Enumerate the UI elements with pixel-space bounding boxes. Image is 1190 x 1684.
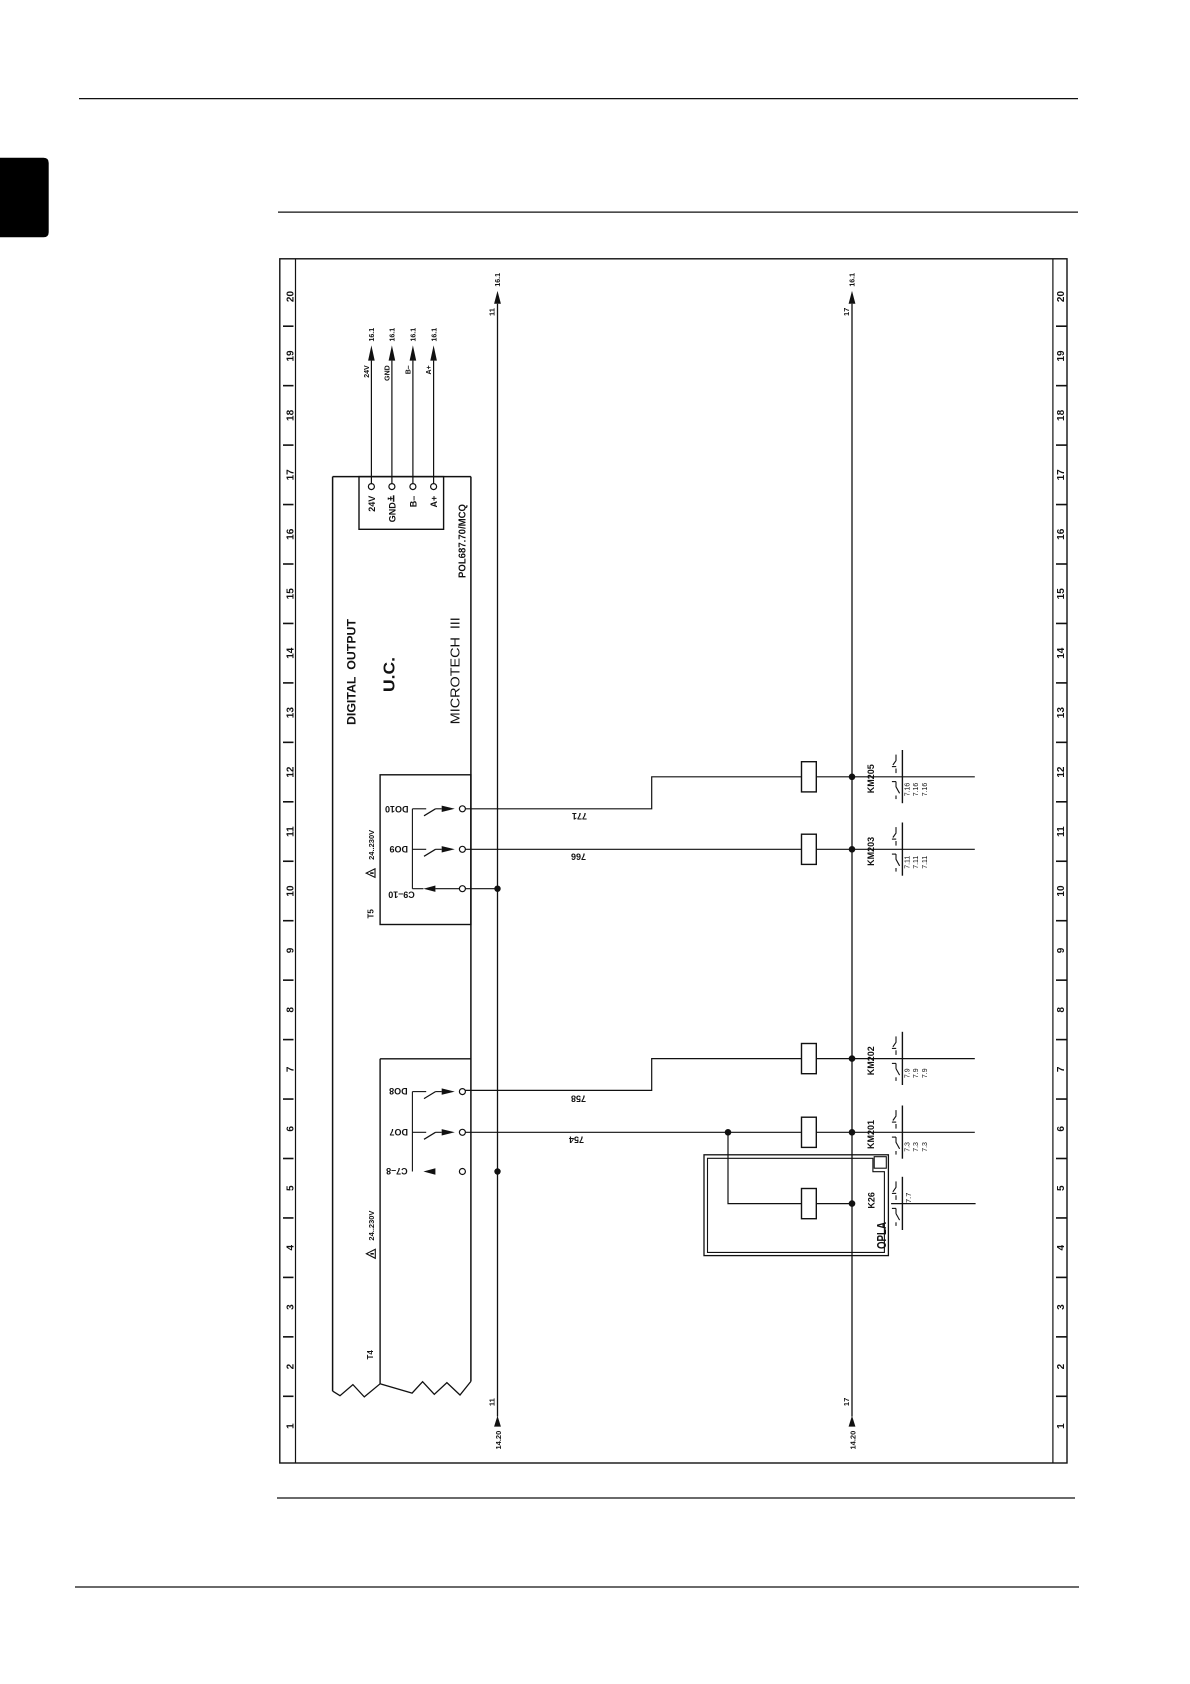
svg-text:771: 771 xyxy=(572,811,587,821)
svg-text:24V: 24V xyxy=(364,365,371,378)
svg-text:16: 16 xyxy=(285,528,296,540)
node: T5 terminal box xyxy=(380,775,471,925)
svg-text:7.9: 7.9 xyxy=(905,1068,912,1078)
svg-text:7.9: 7.9 xyxy=(913,1068,920,1078)
wire: net B- to sheet 16.1 xyxy=(412,361,414,484)
svg-text:13: 13 xyxy=(285,707,296,719)
svg-text:T5: T5 xyxy=(367,909,376,919)
svg-text:C7–8: C7–8 xyxy=(386,1166,408,1176)
wire: net 17 vertical bus xyxy=(851,304,853,1417)
svg-text:A+: A+ xyxy=(429,496,439,508)
node: warning 24..230V (T5) xyxy=(366,830,376,878)
node: junction KM203/net17 xyxy=(849,846,856,853)
wire: KM201 coil to bus 17 xyxy=(816,1131,975,1133)
svg-text:U.C.: U.C. xyxy=(382,657,399,692)
svg-text:DO8: DO8 xyxy=(389,1086,408,1096)
svg-text:4: 4 xyxy=(1056,1244,1067,1250)
wire: T5 output bracket xyxy=(411,809,413,889)
switch DO10: output contact xyxy=(412,806,465,816)
node: T4 terminal box xyxy=(380,1059,471,1384)
svg-text:11: 11 xyxy=(488,1398,497,1406)
svg-text:7.11: 7.11 xyxy=(922,856,929,869)
svg-text:16: 16 xyxy=(1056,528,1067,540)
svg-text:7.3: 7.3 xyxy=(905,1142,912,1152)
svg-text:K26: K26 xyxy=(867,1192,877,1209)
svg-text:7.9: 7.9 xyxy=(922,1068,929,1078)
switch: contact cross-reference xyxy=(892,1177,903,1230)
svg-text:16.1: 16.1 xyxy=(369,328,376,342)
relay coil K26 xyxy=(802,1189,817,1219)
svg-text:24V: 24V xyxy=(367,496,377,512)
svg-text:7.3: 7.3 xyxy=(913,1142,920,1152)
node: pin 1 (24V) xyxy=(368,484,374,490)
svg-text:T4: T4 xyxy=(366,1350,375,1360)
svg-text:5: 5 xyxy=(285,1185,296,1191)
svg-text:17: 17 xyxy=(842,1398,851,1406)
svg-text:7.16: 7.16 xyxy=(922,783,929,797)
svg-text:14: 14 xyxy=(1056,647,1067,659)
switch: contact cross-reference xyxy=(892,750,903,803)
svg-text:KM205: KM205 xyxy=(866,764,876,793)
wire 754: DO7 to KM201 xyxy=(465,1131,801,1133)
relay coil KM205 xyxy=(802,762,817,792)
wire: T4 output bracket xyxy=(411,1092,413,1172)
node: junction K26 tap xyxy=(725,1129,732,1136)
node: pin 3 (B-) xyxy=(410,484,416,490)
svg-text:8: 8 xyxy=(285,1007,296,1013)
svg-text:GND: GND xyxy=(387,502,397,523)
svg-text:2: 2 xyxy=(285,1363,296,1369)
svg-text:DO9: DO9 xyxy=(389,844,408,854)
wire: K26 coil to bus 17 xyxy=(816,1203,852,1205)
svg-text:12: 12 xyxy=(1056,766,1067,778)
relay coil KM201 xyxy=(802,1117,817,1147)
svg-text:18: 18 xyxy=(1056,409,1067,421)
svg-text:7.3: 7.3 xyxy=(922,1142,929,1152)
switch: contact cross-reference xyxy=(892,823,903,876)
svg-text:3: 3 xyxy=(1056,1304,1067,1310)
switch C7&#8211;8: common terminal xyxy=(423,1168,500,1174)
svg-text:15: 15 xyxy=(285,588,296,600)
svg-text:KM201: KM201 xyxy=(866,1120,876,1149)
svg-text:16.1: 16.1 xyxy=(431,328,438,342)
svg-text:15: 15 xyxy=(1056,588,1067,600)
svg-text:KM203: KM203 xyxy=(866,837,876,866)
svg-text:766: 766 xyxy=(571,851,586,861)
svg-text:19: 19 xyxy=(1056,350,1067,362)
svg-text:5: 5 xyxy=(1056,1185,1067,1191)
wire: torn bottom edge zigzag xyxy=(333,1381,471,1397)
svg-text:20: 20 xyxy=(1056,291,1067,303)
svg-text:1: 1 xyxy=(285,1423,296,1429)
svg-text:12: 12 xyxy=(285,766,296,778)
svg-text:16.1: 16.1 xyxy=(411,328,418,342)
svg-text:C9–10: C9–10 xyxy=(388,890,415,900)
svg-text:A+: A+ xyxy=(426,365,433,374)
svg-text:4: 4 xyxy=(285,1244,296,1250)
switch DO8: output contact xyxy=(412,1088,465,1098)
svg-text:3: 3 xyxy=(285,1304,296,1310)
wire 771: DO10 to KM205 xyxy=(465,777,801,809)
svg-text:9: 9 xyxy=(285,947,296,953)
svg-text:14.20: 14.20 xyxy=(848,1431,857,1450)
svg-text:16.1: 16.1 xyxy=(850,273,857,287)
svg-text:DO7: DO7 xyxy=(389,1127,408,1137)
wire: second page rule xyxy=(278,211,1078,213)
svg-text:B–: B– xyxy=(405,365,412,374)
node: warning 24..230V (T4) xyxy=(366,1211,376,1259)
svg-text:1: 1 xyxy=(1056,1423,1067,1429)
connector J1: comm plug box xyxy=(359,477,444,530)
wire: net 24V to sheet 16.1 xyxy=(370,361,372,484)
svg-text:8: 8 xyxy=(1056,1007,1067,1013)
svg-text:7.11: 7.11 xyxy=(905,856,912,869)
wire: KM205 coil to bus 17 xyxy=(816,776,975,778)
wire: K26 contact line xyxy=(891,1203,976,1205)
svg-text:20: 20 xyxy=(285,291,296,303)
wire: KM202 coil to bus 17 xyxy=(816,1058,975,1060)
svg-text:7: 7 xyxy=(1056,1066,1067,1072)
svg-text:6: 6 xyxy=(285,1126,296,1132)
node: junction KM201/net17 xyxy=(849,1129,856,1136)
svg-text:19: 19 xyxy=(285,350,296,362)
frame: schematic border xyxy=(280,259,1067,1463)
wire: K26 feed from wire 754 xyxy=(728,1132,802,1203)
wire: net GND to sheet 16.1 xyxy=(391,361,393,484)
ground: earth symbol at GND pin xyxy=(388,495,393,502)
svg-text:11: 11 xyxy=(1056,826,1067,837)
op-amp U1: MICROTECH III controller box outline xyxy=(333,477,471,1397)
wire: bottom page rule xyxy=(75,1586,1079,1588)
svg-text:14.20: 14.20 xyxy=(494,1431,503,1450)
svg-text:17: 17 xyxy=(842,308,851,316)
wire: KM203 coil to bus 17 xyxy=(816,848,975,850)
svg-text:9: 9 xyxy=(1056,947,1067,953)
svg-text:14: 14 xyxy=(285,647,296,659)
svg-text:11: 11 xyxy=(488,308,497,316)
relay coil KM203 xyxy=(802,834,817,864)
svg-text:24..230V: 24..230V xyxy=(367,1211,376,1241)
svg-text:DO10: DO10 xyxy=(385,804,409,814)
switch DO9: output contact xyxy=(412,846,465,856)
wire: lower page rule xyxy=(277,1497,1075,1499)
node: junction KM205/net17 xyxy=(849,774,856,781)
svg-text:11: 11 xyxy=(285,826,296,837)
svg-text:18: 18 xyxy=(285,409,296,421)
svg-text:16.1: 16.1 xyxy=(390,328,397,342)
svg-text:POL687.70/MCQ: POL687.70/MCQ xyxy=(457,504,468,578)
svg-text:754: 754 xyxy=(569,1134,584,1144)
svg-text:7.11: 7.11 xyxy=(913,856,920,869)
svg-text:7.7: 7.7 xyxy=(904,1193,913,1203)
svg-text:MICROTECH III: MICROTECH III xyxy=(448,617,463,724)
switch DO7: output contact xyxy=(412,1129,465,1139)
svg-text:OPLA: OPLA xyxy=(874,1222,889,1249)
node: black side tab xyxy=(0,158,49,238)
relay coil KM202 xyxy=(802,1044,817,1074)
node: pin 4 (A+) xyxy=(431,484,437,490)
svg-text:7.16: 7.16 xyxy=(913,783,920,797)
svg-text:16.1: 16.1 xyxy=(495,273,502,287)
node: junction K26/net17 xyxy=(849,1200,856,1207)
wire 766: DO9 to KM203 xyxy=(465,848,801,850)
node: pin 2 (GND) xyxy=(389,484,395,490)
switch: contact cross-reference xyxy=(892,1032,903,1085)
svg-text:2: 2 xyxy=(1056,1363,1067,1369)
op-amp OPLA: option module box xyxy=(704,1155,888,1256)
svg-text:B–: B– xyxy=(408,496,418,508)
svg-text:17: 17 xyxy=(1056,469,1067,481)
node: junction KM202/net17 xyxy=(849,1055,856,1062)
svg-text:7.16: 7.16 xyxy=(905,783,912,797)
switch C9&#8211;10: common terminal xyxy=(412,886,500,892)
svg-text:KM202: KM202 xyxy=(866,1046,876,1075)
wire: top page rule xyxy=(79,98,1078,100)
wire 758: DO8 to KM202 xyxy=(465,1059,801,1091)
svg-text:24..230V: 24..230V xyxy=(367,830,376,860)
wire: net A+ to sheet 16.1 xyxy=(433,361,435,484)
svg-text:DIGITAL OUTPUT: DIGITAL OUTPUT xyxy=(346,619,358,725)
svg-text:13: 13 xyxy=(1056,707,1067,719)
svg-text:758: 758 xyxy=(571,1093,586,1103)
svg-text:GND: GND xyxy=(384,365,391,381)
switch: contact cross-reference xyxy=(892,1106,903,1159)
svg-text:7: 7 xyxy=(285,1066,296,1072)
wire: net 11 vertical bus xyxy=(497,304,499,1417)
svg-text:10: 10 xyxy=(1056,885,1067,897)
svg-text:6: 6 xyxy=(1056,1126,1067,1132)
svg-text:17: 17 xyxy=(285,469,296,481)
svg-text:10: 10 xyxy=(285,885,296,897)
